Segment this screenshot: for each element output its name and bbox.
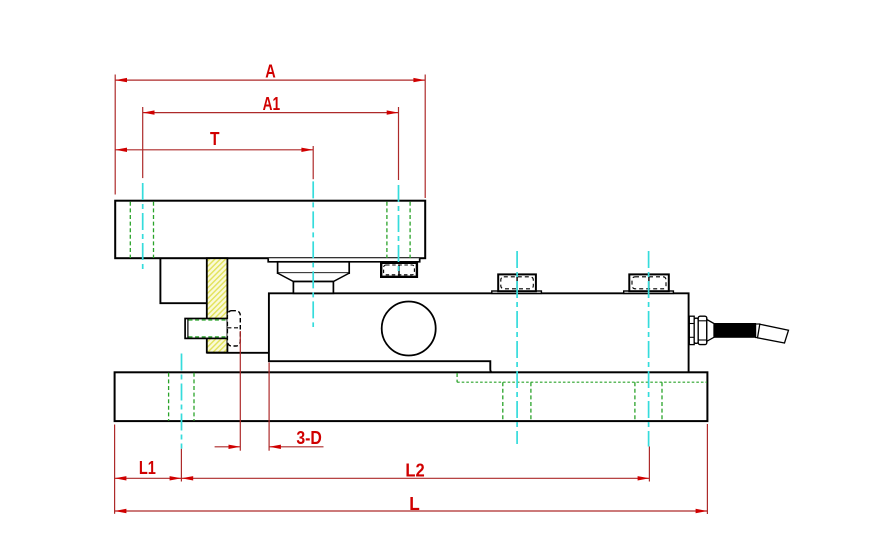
dimension A1 line <box>143 112 399 114</box>
svg-text:T: T <box>210 129 220 149</box>
dimension L right extension line <box>706 424 708 514</box>
dimension T extension line <box>312 146 314 179</box>
column foot line <box>207 352 269 354</box>
svg-text:A1: A1 <box>263 94 281 114</box>
anchor hole 1 hidden lines <box>502 382 504 421</box>
centerline load button <box>312 181 314 327</box>
bottom plate <box>115 372 708 421</box>
mounting bolt 2 washer <box>624 291 674 293</box>
dimension 3-D extension lines <box>239 331 241 451</box>
dimension A extension lines <box>114 75 116 195</box>
clamp bolt head (hidden, dashed) <box>227 311 240 346</box>
centerline mounting bolt 1 <box>516 251 518 444</box>
dimension L1/L left extension line <box>114 425 116 514</box>
cable gap piece <box>756 324 760 338</box>
clamp bolt shaft <box>185 319 227 339</box>
mounting bolt 2 hex head <box>629 274 669 291</box>
cable gland flange <box>689 316 694 344</box>
svg-text:L: L <box>409 494 420 514</box>
dimension L2 right extension line <box>648 447 650 482</box>
centerline bottom plate left hole <box>181 354 183 449</box>
dimension A line <box>115 79 425 81</box>
dimension A1 extension lines <box>142 107 144 178</box>
shim plate under top plate <box>268 258 420 262</box>
clamp bolt threads (hidden) <box>189 319 228 321</box>
svg-text:3-D: 3-D <box>296 428 322 448</box>
load button taper <box>278 273 350 281</box>
centerline top plate right hole <box>398 185 400 273</box>
svg-text:L2: L2 <box>405 461 424 481</box>
dimension L1 right extension line <box>180 449 182 482</box>
cable gland neck <box>694 318 698 343</box>
top plate <box>115 201 425 259</box>
load cell hole <box>382 302 436 356</box>
dimension L line <box>115 510 708 512</box>
cable gland cone <box>707 320 714 342</box>
cable end sleeve <box>758 324 789 343</box>
threaded stud column (hatched) <box>207 258 228 352</box>
mounting bolt 1 hex head <box>498 274 536 291</box>
centerline mounting bolt 2 <box>648 251 650 447</box>
load cell body <box>269 293 689 373</box>
clamp bolt shaft end cap <box>187 319 189 339</box>
dimension 3-D line and arrows <box>215 446 241 448</box>
load button cylinder <box>293 282 333 294</box>
bottom plate left hole hidden lines <box>168 373 170 421</box>
svg-text:L1: L1 <box>139 458 156 478</box>
load button upper disc <box>278 262 350 273</box>
dimension L2 line <box>181 477 649 479</box>
hanger bracket <box>160 258 206 303</box>
svg-text:A: A <box>265 61 276 81</box>
dimension T line <box>115 149 313 151</box>
top plate right hole hidden lines <box>386 202 388 258</box>
cable (black) <box>714 324 756 338</box>
cable gland hex nut <box>698 316 707 344</box>
anchor hole 2 hidden lines <box>634 382 636 421</box>
mounting bolt 1 washer <box>492 291 542 293</box>
pocket hidden outline <box>456 373 458 382</box>
top plate left hole hidden lines <box>129 202 131 258</box>
dimension L1 line <box>115 477 182 479</box>
centerline top plate left hole <box>142 183 144 271</box>
nut under top plate <box>381 263 417 277</box>
